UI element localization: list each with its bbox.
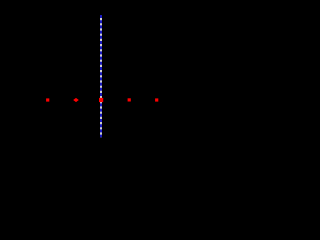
data point marker square 4 bbox=[128, 98, 131, 101]
data point marker square 3 (on line) bbox=[99, 98, 103, 102]
vertical dashed reference line (white under-dashes) bbox=[100, 15, 102, 137]
data point marker square 1 bbox=[46, 98, 49, 101]
vertical dashed reference line (blue dashes) bbox=[100, 15, 102, 137]
data point marker diamond 2 bbox=[73, 98, 79, 102]
data point marker square 5 bbox=[155, 98, 158, 101]
